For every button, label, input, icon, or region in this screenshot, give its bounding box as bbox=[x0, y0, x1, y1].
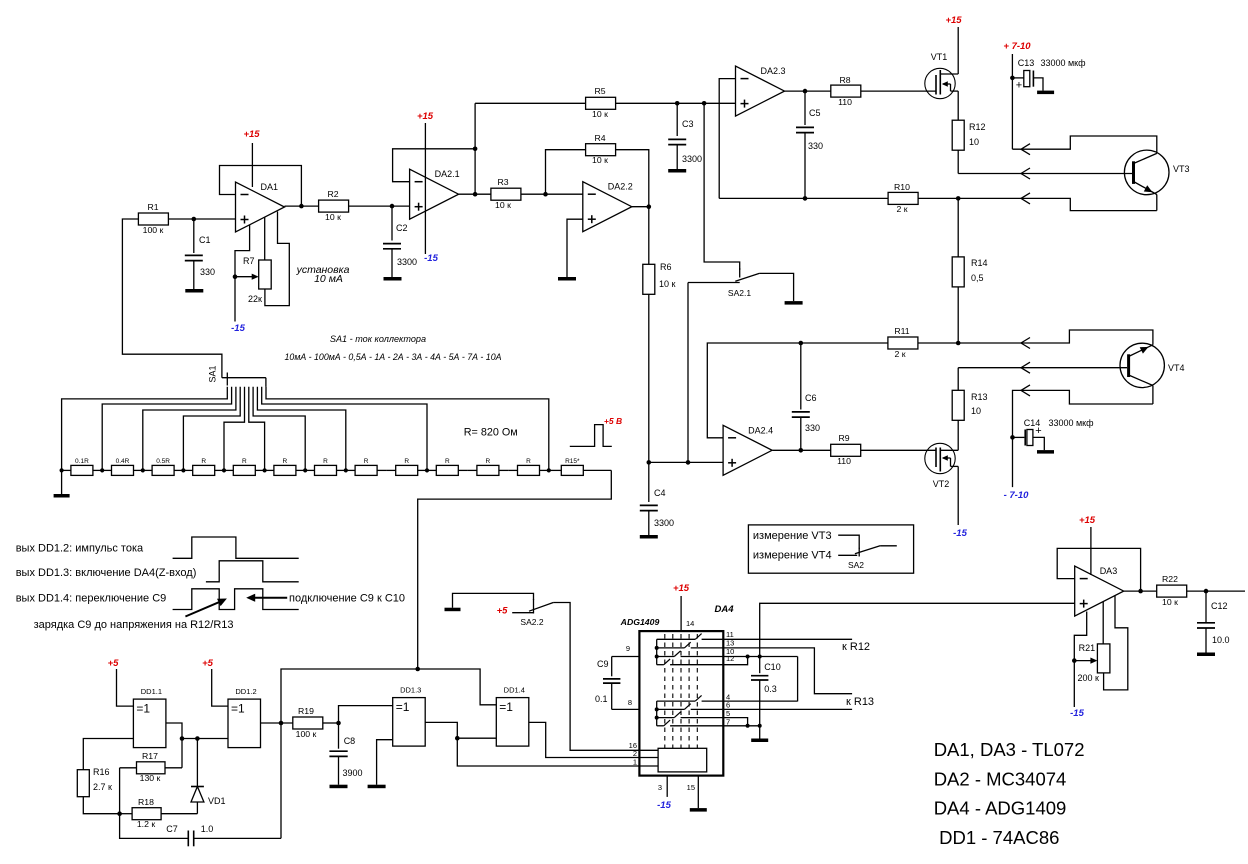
wire R4 left riser bbox=[546, 150, 586, 195]
svg-text:R3: R3 bbox=[497, 177, 508, 187]
ground C3 bbox=[668, 169, 686, 173]
svg-text:R: R bbox=[242, 458, 247, 465]
wire SA1 contact 4 to ladder tap bbox=[183, 387, 240, 471]
svg-text:110: 110 bbox=[837, 456, 851, 466]
op-amp DA3 bbox=[1075, 566, 1124, 616]
power +5 DD1.2 bbox=[202, 658, 228, 706]
svg-text:3300: 3300 bbox=[654, 518, 674, 528]
wire VT2 top to R13 bbox=[957, 420, 959, 450]
svg-text:10 к: 10 к bbox=[325, 212, 341, 222]
pin 3 to -15 bbox=[657, 776, 671, 811]
power +5 SA2.2 bbox=[497, 606, 534, 617]
xor gate DD1.2 bbox=[228, 687, 261, 748]
node C3 junction bbox=[675, 101, 680, 106]
svg-text:DA1, DA3 - TL072: DA1, DA3 - TL072 bbox=[934, 739, 1085, 760]
wire R4 right to DA2.2 output bbox=[616, 150, 649, 207]
label current positions bbox=[285, 352, 502, 362]
svg-text:VT3: VT3 bbox=[1173, 164, 1190, 174]
svg-text:C14: C14 bbox=[1024, 418, 1041, 428]
svg-text:12: 12 bbox=[726, 654, 734, 663]
resistor R4 bbox=[586, 133, 616, 165]
ground ladder left end bbox=[54, 470, 70, 497]
svg-text:R18: R18 bbox=[138, 797, 154, 807]
svg-text:SA2.1: SA2.1 bbox=[728, 288, 751, 298]
resistor ladder R15* bbox=[549, 458, 612, 475]
svg-text:R9: R9 bbox=[838, 433, 849, 443]
annotation box измерение SA2 bbox=[748, 525, 913, 573]
resistor R12 bbox=[952, 120, 985, 150]
node C14 junction bbox=[1010, 435, 1015, 440]
resistor ladder R bbox=[468, 458, 509, 475]
wire R3 to DA2.2 - input bbox=[521, 193, 583, 195]
power -15 DA1 bbox=[231, 323, 245, 334]
wire C7 riser to ladder wire bbox=[281, 669, 418, 838]
node R11/R14/VT4 junction bbox=[956, 341, 961, 346]
node ladder tap junction bbox=[344, 468, 348, 472]
svg-text:33000 мкф: 33000 мкф bbox=[1048, 418, 1094, 428]
wire DA2.3 input to SA2.1 bbox=[704, 103, 740, 270]
svg-text:3300: 3300 bbox=[397, 257, 417, 267]
label установка 10 мА bbox=[296, 264, 350, 285]
wire SA1 contact 5 to ladder tap bbox=[224, 387, 245, 471]
svg-text:R17: R17 bbox=[142, 751, 158, 761]
power -15 DA3 bbox=[1070, 708, 1084, 719]
node C4 junction bbox=[647, 460, 652, 465]
node C12 top bbox=[1204, 589, 1209, 594]
label подключение C9 к C10 bbox=[289, 592, 405, 604]
wire VT2 to -15 bbox=[957, 466, 959, 525]
power -15 VT2 bbox=[953, 528, 967, 539]
svg-text:SA2.2: SA2.2 bbox=[520, 617, 543, 627]
svg-text:DD1.1: DD1.1 bbox=[141, 687, 162, 696]
label зарядка C9 до напряжения на R12/R13 bbox=[34, 619, 234, 631]
ground pin 15 bbox=[690, 808, 707, 812]
node DA1 output bbox=[299, 204, 304, 209]
svg-text:10.0: 10.0 bbox=[1212, 635, 1230, 645]
svg-text:110: 110 bbox=[838, 97, 852, 107]
pulse symbol +5 V bbox=[570, 416, 622, 446]
svg-text:R: R bbox=[404, 458, 409, 465]
wire VT3 base line bbox=[958, 173, 1132, 175]
svg-text:DD1.4: DD1.4 bbox=[504, 686, 525, 695]
wire DA1 output to R2 bbox=[285, 205, 319, 207]
wire pin 13 jog bbox=[723, 648, 852, 694]
svg-text:C9: C9 bbox=[597, 659, 609, 669]
svg-text:SA2: SA2 bbox=[848, 560, 864, 570]
resistor R13 bbox=[952, 390, 987, 420]
label к R13 bbox=[846, 696, 874, 708]
wire SA2.1 down to C4 node bbox=[687, 283, 689, 463]
svg-text:DA2.3: DA2.3 bbox=[761, 66, 786, 76]
svg-text:+15: +15 bbox=[417, 111, 434, 122]
node ladder tap junction bbox=[425, 468, 429, 472]
svg-text:2 к: 2 к bbox=[896, 204, 907, 214]
svg-text:подключение C9 к C10: подключение C9 к C10 bbox=[289, 592, 405, 604]
ground C14 bbox=[1037, 450, 1054, 454]
svg-text:330: 330 bbox=[805, 423, 820, 433]
waveform DD1.3 output bbox=[206, 561, 299, 582]
wire feedback to R11 bbox=[801, 342, 888, 344]
svg-text:+15: +15 bbox=[1079, 515, 1096, 526]
wire R1 input net (left vertical to SA1 pole) bbox=[122, 219, 221, 378]
wire R1 to DA1 + input bbox=[168, 218, 235, 220]
svg-text:130 к: 130 к bbox=[140, 773, 161, 783]
resistor ladder R bbox=[305, 458, 346, 475]
svg-text:+5: +5 bbox=[202, 658, 214, 669]
svg-text:SA1 - ток коллектора: SA1 - ток коллектора bbox=[330, 334, 426, 344]
svg-text:C3: C3 bbox=[682, 119, 694, 129]
resistor ladder R bbox=[265, 458, 306, 475]
svg-text:=1: =1 bbox=[499, 700, 513, 714]
wire pin 16 into control block bbox=[629, 741, 658, 750]
resistor R22 bbox=[1157, 574, 1187, 607]
svg-text:2.7 к: 2.7 к bbox=[93, 782, 112, 792]
svg-text:=1: =1 bbox=[396, 700, 410, 714]
node ladder tap junction bbox=[100, 468, 104, 472]
wire SA1 contact 9 to ladder tap bbox=[262, 387, 427, 471]
svg-text:10 к: 10 к bbox=[592, 155, 608, 165]
transistor VT2 (MOSFET) bbox=[925, 443, 958, 489]
ground DD1.3 input bbox=[368, 785, 386, 789]
xor gate DD1.4 bbox=[496, 686, 529, 747]
svg-text:DD1.2: DD1.2 bbox=[235, 687, 256, 696]
svg-text:DA2.4: DA2.4 bbox=[748, 425, 773, 435]
capacitor C8 bbox=[323, 723, 363, 785]
node DA2.1 feedback tee bbox=[473, 147, 478, 152]
svg-text:ADG1409: ADG1409 bbox=[620, 617, 660, 627]
ground C4 bbox=[640, 535, 658, 539]
svg-text:200 к: 200 к bbox=[1078, 673, 1100, 683]
label к R12 bbox=[842, 641, 870, 653]
svg-text:R: R bbox=[283, 458, 288, 465]
svg-text:-15: -15 bbox=[657, 800, 671, 811]
wiper arrow to R7 bbox=[235, 274, 259, 280]
label R= 820 Ом bbox=[464, 427, 518, 439]
svg-text:+15: +15 bbox=[673, 583, 690, 594]
svg-text:DA2.1: DA2.1 bbox=[435, 169, 460, 179]
svg-text:C4: C4 bbox=[654, 488, 666, 498]
wire riser to R5 bbox=[475, 102, 585, 104]
svg-text:1.0: 1.0 bbox=[201, 824, 214, 834]
waveform DD1.4 output bbox=[173, 589, 299, 610]
node C13 junction bbox=[1010, 76, 1015, 81]
svg-text:+: + bbox=[1016, 80, 1022, 92]
svg-text:DD1 - 74AC86: DD1 - 74AC86 bbox=[939, 827, 1059, 848]
node C1 junction bbox=[192, 217, 197, 222]
node ladder tap junction bbox=[60, 468, 64, 472]
svg-text:R: R bbox=[201, 458, 206, 465]
xor gate DD1.1 bbox=[133, 687, 166, 748]
svg-text:DA2.2: DA2.2 bbox=[608, 182, 633, 192]
wire VT4 emitter line bbox=[958, 330, 1153, 345]
svg-text:R4: R4 bbox=[594, 133, 605, 143]
svg-text:C2: C2 bbox=[396, 223, 408, 233]
node R19 right junction bbox=[336, 721, 341, 726]
node pin5/7 join bbox=[746, 724, 750, 728]
node C5 top bbox=[803, 89, 808, 94]
resistor R5 bbox=[586, 86, 616, 119]
node ladder tap junction bbox=[181, 468, 185, 472]
terminal chevron VT3 collector bbox=[1021, 144, 1030, 155]
svg-text:+15: +15 bbox=[945, 15, 962, 26]
wire DA3 feedback loop bbox=[1057, 548, 1140, 591]
node ladder tap junction bbox=[141, 468, 145, 472]
label вых DD1.4 переключение C9 bbox=[16, 593, 167, 605]
diode VD1 bbox=[191, 736, 226, 814]
label измерение VT3 bbox=[753, 530, 859, 549]
wire pin 6 to к R13 bbox=[723, 708, 852, 710]
node ladder tap junction bbox=[263, 468, 267, 472]
node DA2.2 output bbox=[647, 204, 652, 209]
ground C2 bbox=[384, 277, 402, 281]
svg-text:+5: +5 bbox=[497, 606, 509, 617]
switch group B pins 4 6 5 7 bbox=[655, 695, 724, 725]
node pin10/12 join bbox=[746, 655, 750, 659]
svg-text:R: R bbox=[364, 458, 369, 465]
wire pin 11 to к R12 bbox=[723, 638, 852, 640]
wire VT1 source to R12 bbox=[957, 91, 959, 120]
svg-text:100 к: 100 к bbox=[143, 225, 164, 235]
node R7 wiper bbox=[233, 274, 238, 279]
svg-text:9: 9 bbox=[626, 644, 630, 653]
node DA2.1 output bbox=[473, 192, 478, 197]
svg-text:=1: =1 bbox=[136, 702, 150, 716]
wire DA2.4 feedback loop bbox=[707, 343, 801, 438]
wire SA1 contact 10 to ladder tap bbox=[266, 387, 549, 471]
svg-text:330: 330 bbox=[808, 141, 823, 151]
wire R22 to output bbox=[1187, 590, 1245, 592]
wire SA1 contact 3 to ladder tap bbox=[143, 387, 236, 471]
potentiometer R21 bbox=[1078, 643, 1110, 683]
ground C13 bbox=[1037, 91, 1054, 95]
wire DA1 -15 branch with wiper node bbox=[235, 225, 250, 322]
wire DA2.3 output bbox=[785, 90, 831, 92]
capacitor C10 bbox=[751, 657, 781, 739]
wire SA1 contact 8 to ladder tap bbox=[257, 387, 345, 471]
svg-text:1: 1 bbox=[633, 758, 637, 767]
node R14 top bbox=[956, 196, 961, 201]
wire R10 to emitter node bbox=[918, 197, 958, 199]
resistor ladder R bbox=[224, 458, 265, 475]
op-amp DA1 bbox=[236, 182, 285, 232]
wire DA2.3 R10 line bbox=[719, 197, 888, 199]
svg-text:+5: +5 bbox=[108, 658, 120, 669]
svg-text:зарядка C9 до напряжения на R1: зарядка C9 до напряжения на R12/R13 bbox=[34, 619, 234, 631]
wire SA1 contact 1 to ladder tap bbox=[62, 387, 228, 471]
capacitor C13 (polarized) bbox=[1012, 58, 1086, 92]
svg-text:R16: R16 bbox=[93, 767, 110, 777]
wire DA1 feedback loop bbox=[220, 166, 302, 207]
svg-text:SA1: SA1 bbox=[208, 365, 218, 382]
ground C12 bbox=[1197, 653, 1215, 657]
wire DA3 -15 branch bbox=[1074, 612, 1086, 708]
svg-text:10 к: 10 к bbox=[1162, 597, 1178, 607]
wire R6 bottom to C4 node bbox=[648, 294, 650, 462]
svg-text:R5: R5 bbox=[594, 86, 605, 96]
svg-text:-15: -15 bbox=[953, 528, 967, 539]
label вых DD1.2 импульс тока bbox=[16, 543, 144, 555]
power +15 DA4 pin 14 bbox=[673, 583, 694, 631]
ground C8 bbox=[330, 785, 348, 789]
wire SA1 pole bend to contact 10 bbox=[265, 378, 267, 387]
svg-text:R: R bbox=[445, 458, 450, 465]
svg-text:R13: R13 bbox=[971, 392, 988, 402]
node C10 top bbox=[758, 655, 762, 659]
power +15 DA3 bbox=[1079, 515, 1096, 575]
wire DA2.2 output down to R6 bbox=[632, 207, 649, 265]
node DA3 output bbox=[1138, 589, 1143, 594]
resistor ladder R bbox=[346, 458, 387, 475]
wire pin 2 into control block bbox=[633, 749, 658, 758]
control lines dashed bbox=[665, 634, 698, 748]
wire DA2.4 output to R9 bbox=[773, 449, 831, 451]
svg-text:C7: C7 bbox=[166, 824, 178, 834]
control block DA4 bbox=[658, 748, 707, 772]
svg-text:R7: R7 bbox=[243, 256, 255, 266]
svg-text:VD1: VD1 bbox=[208, 796, 226, 806]
svg-text:R15*: R15* bbox=[565, 458, 580, 465]
svg-text:к R12: к R12 bbox=[842, 641, 870, 653]
label SA1 - ток коллектора bbox=[330, 334, 426, 344]
svg-text:вых DD1.4: переключение C9: вых DD1.4: переключение C9 bbox=[16, 593, 167, 605]
wire DA1 pin to R7 top bbox=[264, 217, 266, 260]
capacitor C3 bbox=[668, 103, 702, 169]
wire pin 7 bbox=[723, 725, 759, 727]
svg-text:R8: R8 bbox=[839, 75, 850, 85]
svg-text:C1: C1 bbox=[199, 235, 211, 245]
resistor R14 bbox=[952, 257, 987, 287]
node C2 junction bbox=[390, 204, 395, 209]
svg-text:22к: 22к bbox=[248, 294, 262, 304]
resistor R19 bbox=[293, 706, 323, 739]
wire pin 12 up join bbox=[723, 657, 747, 665]
resistor ladder 0.1R bbox=[62, 458, 103, 475]
transistor VT3 (BJT NPN) bbox=[1124, 150, 1189, 211]
svg-text:DD1.3: DD1.3 bbox=[400, 686, 421, 695]
node SA2.1 branch on DA2.4 input bbox=[686, 460, 691, 465]
svg-text:- 7-10: - 7-10 bbox=[1004, 490, 1030, 501]
switch SA2.1 bbox=[688, 268, 794, 301]
wire VT3 collector line bbox=[1012, 136, 1156, 153]
svg-text:вых DD1.2: импульс тока: вых DD1.2: импульс тока bbox=[16, 543, 144, 555]
pin labels 11 13 10 12 bbox=[726, 630, 734, 663]
xor gate DD1.3 bbox=[393, 686, 426, 747]
wire DD1.3 output to DD1.4 bbox=[425, 722, 496, 738]
label DA4 bbox=[714, 604, 734, 615]
power +7-10 rail C13 bbox=[1003, 41, 1031, 149]
svg-text:C5: C5 bbox=[809, 108, 821, 118]
svg-text:R6: R6 bbox=[660, 262, 672, 272]
svg-text:C12: C12 bbox=[1211, 601, 1228, 611]
label измерение VT4 bbox=[753, 550, 857, 562]
svg-text:3900: 3900 bbox=[343, 768, 363, 778]
wire pin 1 into control block bbox=[633, 758, 658, 767]
svg-text:2 к: 2 к bbox=[894, 349, 905, 359]
ground C10 bbox=[751, 739, 768, 743]
resistor ladder R bbox=[427, 458, 468, 475]
svg-text:3: 3 bbox=[658, 783, 662, 792]
resistor ladder R bbox=[508, 458, 549, 475]
svg-text:10мА - 100мА - 0,5А - 1А - 2А: 10мА - 100мА - 0,5А - 1А - 2А - 3А - 4А … bbox=[285, 352, 502, 362]
svg-text:0.1R: 0.1R bbox=[75, 458, 89, 465]
chip DA4 ADG1409 box bbox=[639, 631, 723, 776]
svg-text:R= 820 Ом: R= 820 Ом bbox=[464, 427, 518, 439]
capacitor C2 bbox=[383, 206, 417, 277]
svg-text:VT1: VT1 bbox=[931, 52, 948, 62]
resistor ladder R bbox=[183, 458, 224, 475]
terminal chevron VT3 emitter bbox=[1021, 193, 1030, 204]
svg-text:=1: =1 bbox=[231, 702, 245, 716]
terminal chevron VT3 base bbox=[1021, 168, 1030, 179]
svg-text:R: R bbox=[526, 458, 531, 465]
node R21 wiper bbox=[1072, 658, 1077, 663]
svg-text:VT2: VT2 bbox=[933, 479, 950, 489]
wire C4 node to DA2.4 + input bbox=[649, 461, 723, 463]
capacitor C14 (polarized) bbox=[1013, 418, 1095, 450]
power +15 DA1 bbox=[243, 129, 260, 187]
svg-text:+5 В: +5 В bbox=[604, 416, 622, 426]
capacitor C9 bbox=[595, 644, 639, 709]
svg-text:измерение VT3: измерение VT3 bbox=[753, 530, 832, 542]
svg-text:DA4 - ADG1409: DA4 - ADG1409 bbox=[934, 798, 1067, 819]
capacitor C6 bbox=[792, 343, 820, 450]
capacitor C5 bbox=[796, 91, 823, 198]
svg-text:3300: 3300 bbox=[682, 154, 702, 164]
op-amp DA2.2 bbox=[583, 182, 633, 232]
wire R21 bottom loop bbox=[1104, 596, 1128, 690]
wire DA2.2 + input to ground bbox=[567, 219, 583, 277]
wire DD1.1 lower input from R16 bbox=[83, 739, 133, 770]
capacitor C4 bbox=[640, 462, 674, 535]
resistor R2 bbox=[319, 189, 349, 222]
svg-text:DA3: DA3 bbox=[1100, 566, 1118, 576]
svg-text:к R13: к R13 bbox=[846, 696, 874, 708]
wire R19 to DD1.3 input bbox=[339, 706, 393, 723]
resistor R10 bbox=[888, 182, 918, 214]
svg-text:R22: R22 bbox=[1162, 574, 1178, 584]
svg-text:-15: -15 bbox=[231, 323, 245, 334]
pin labels 4 6 5 7 bbox=[726, 693, 730, 727]
wire SA1 contact 2 to ladder tap bbox=[102, 387, 231, 471]
resistor R18 bbox=[120, 797, 198, 829]
resistor R6 bbox=[643, 262, 676, 294]
svg-text:15: 15 bbox=[687, 783, 695, 792]
wire ladder output to logic bbox=[418, 470, 612, 669]
svg-text:вых DD1.3: включение DA4(Z-вхо: вых DD1.3: включение DA4(Z-вход) bbox=[16, 567, 197, 579]
switch SA1 pole bbox=[208, 365, 266, 385]
svg-text:R11: R11 bbox=[894, 326, 909, 336]
svg-text:0.4R: 0.4R bbox=[116, 458, 130, 465]
wire R14 bottom to R11 node bbox=[957, 287, 959, 343]
resistor ladder 0.5R bbox=[143, 458, 184, 475]
node ladder tap junction bbox=[303, 468, 307, 472]
wire R5 to DA2.3 + input bbox=[616, 102, 736, 104]
label parts list DA4 ADG1409 bbox=[934, 798, 1067, 819]
svg-text:измерение VT4: измерение VT4 bbox=[753, 550, 832, 562]
svg-text:DA2 - MC34074: DA2 - MC34074 bbox=[934, 768, 1067, 789]
svg-text:14: 14 bbox=[686, 619, 694, 628]
wire C10 node to DA3 + input bbox=[760, 603, 1075, 656]
terminal chevron VT4 collector bbox=[1021, 385, 1030, 396]
svg-text:10: 10 bbox=[969, 137, 979, 147]
power +15 -15 DA2.1 bbox=[417, 111, 439, 264]
ground DA2.2 + input bbox=[558, 277, 576, 281]
node ladder tap junction bbox=[222, 468, 226, 472]
resistor ladder 0.4R bbox=[102, 458, 143, 475]
node R3/R4 junction bbox=[543, 192, 548, 197]
wire SA1 contact 6 to ladder tap bbox=[249, 387, 265, 471]
svg-text:R12: R12 bbox=[969, 122, 986, 132]
